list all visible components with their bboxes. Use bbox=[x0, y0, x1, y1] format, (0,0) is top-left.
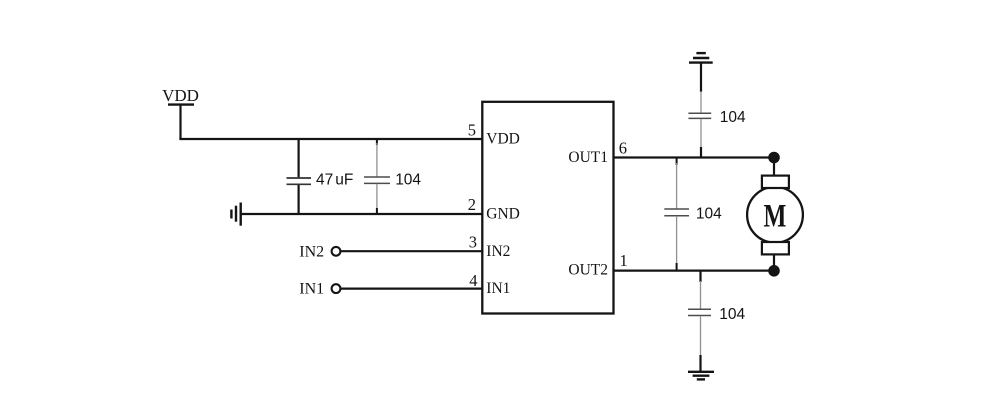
svg-text:IN2: IN2 bbox=[299, 244, 324, 261]
svg-text:1: 1 bbox=[620, 251, 628, 270]
svg-text:5: 5 bbox=[468, 120, 476, 139]
wire VDD rail (power flag to IC pin 5) bbox=[179, 138, 483, 140]
terminal circle IN2 bbox=[332, 247, 341, 256]
svg-text:6: 6 bbox=[619, 139, 627, 158]
svg-text:VDD: VDD bbox=[162, 86, 199, 105]
terminal circle IN1 bbox=[332, 284, 341, 293]
svg-text:IN1: IN1 bbox=[299, 281, 324, 298]
svg-text:104: 104 bbox=[720, 109, 746, 126]
svg-text:VDD: VDD bbox=[486, 131, 520, 148]
svg-text:2: 2 bbox=[468, 195, 476, 214]
capacitor C3 104 (OUT1 to top ground) bbox=[688, 63, 711, 158]
svg-text:104: 104 bbox=[719, 306, 745, 323]
capacitor C4 104 (between OUT1 and OUT2) bbox=[664, 158, 689, 271]
wire OUT1 (IC pin 6 to motor top) bbox=[613, 156, 776, 158]
power flag VDD bbox=[162, 86, 199, 139]
svg-text:47uF: 47uF bbox=[316, 171, 353, 188]
junction dot (OUT1 / motor top) bbox=[768, 152, 780, 164]
svg-text:3: 3 bbox=[469, 233, 477, 252]
svg-text:GND: GND bbox=[486, 206, 520, 223]
wire OUT2 (IC pin 1 to motor bottom) bbox=[613, 269, 776, 271]
svg-text:IN2: IN2 bbox=[486, 243, 510, 260]
svg-text:OUT1: OUT1 bbox=[568, 149, 608, 166]
svg-text:104: 104 bbox=[696, 205, 722, 222]
svg-text:IN1: IN1 bbox=[486, 280, 510, 297]
motor M1 bbox=[747, 158, 803, 271]
ground (top right, earth symbol) bbox=[689, 53, 713, 63]
wire IN2 (terminal to IC pin 3) bbox=[341, 250, 483, 252]
svg-text:OUT2: OUT2 bbox=[568, 262, 608, 279]
svg-text:M: M bbox=[764, 198, 787, 234]
wire IN1 (terminal to IC pin 4) bbox=[341, 288, 483, 290]
capacitor C1 47uF bbox=[287, 139, 312, 214]
svg-text:4: 4 bbox=[469, 271, 477, 290]
ground (left, sideways earth symbol) bbox=[231, 203, 240, 226]
svg-text:104: 104 bbox=[395, 171, 421, 188]
ground (bottom right, earth symbol) bbox=[688, 372, 714, 380]
wire GND rail (ground to IC pin 2) bbox=[241, 213, 483, 215]
capacitor C5 104 (OUT2 to bottom ground) bbox=[688, 271, 711, 371]
IC U1 body bbox=[482, 102, 613, 314]
capacitor C2 104 bbox=[364, 139, 390, 214]
junction dot (OUT2 / motor bottom) bbox=[768, 265, 780, 277]
